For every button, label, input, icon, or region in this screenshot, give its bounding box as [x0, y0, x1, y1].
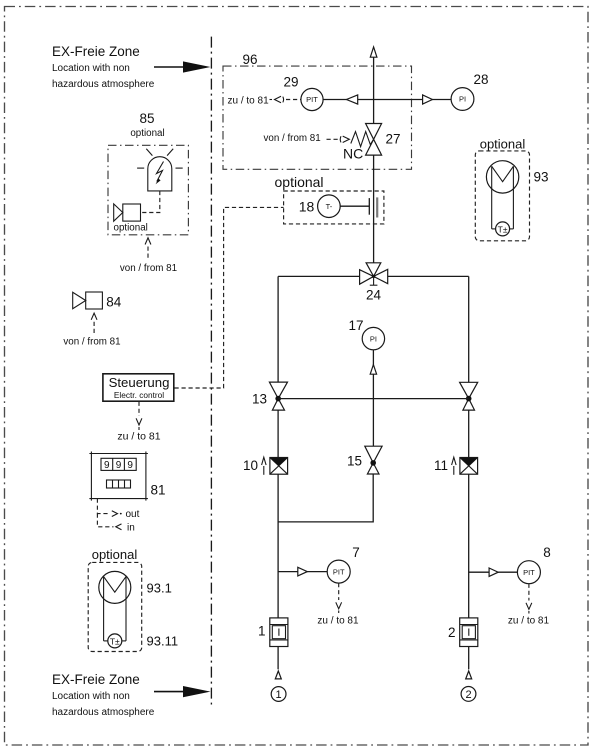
transmitter PIT 8	[469, 545, 551, 584]
label EX-Freie Zone (bottom)	[52, 672, 155, 718]
svg-text:84: 84	[106, 295, 122, 310]
alarm unit 85 label	[130, 111, 164, 139]
zone arrow (bottom)	[154, 686, 211, 697]
beacon lamp	[148, 157, 172, 191]
arrowhead toward PIT29	[347, 95, 358, 104]
svg-text:2: 2	[448, 625, 456, 640]
svg-text:8: 8	[543, 545, 551, 560]
svg-text:PIT: PIT	[523, 568, 535, 577]
gauge PI 17	[348, 318, 384, 350]
svg-text:29: 29	[283, 75, 298, 90]
label EX-Freie Zone (top)	[52, 44, 155, 90]
fan 93.1	[99, 571, 131, 641]
filter 1	[258, 618, 288, 647]
svg-text:PI: PI	[370, 334, 377, 343]
svg-text:zu / to 81: zu / to 81	[317, 616, 359, 627]
transmitter PIT 29	[301, 88, 323, 110]
svg-text:EX-Freie Zone: EX-Freie Zone	[52, 672, 140, 687]
vent outlet arrow	[370, 47, 377, 57]
temperature sensor 93.11	[108, 634, 122, 648]
inlet 1	[271, 647, 286, 702]
svg-text:1: 1	[276, 689, 282, 701]
svg-text:optional: optional	[130, 128, 164, 139]
zone arrow (top)	[154, 61, 211, 72]
controller 81 box	[89, 452, 147, 501]
vent pipe (top main line)	[373, 57, 375, 123]
svg-text:zu / to 81: zu / to 81	[508, 616, 550, 627]
solenoid valve 27	[343, 124, 401, 162]
svg-text:81: 81	[151, 483, 166, 498]
svg-text:2: 2	[465, 689, 471, 701]
pipe below valve 27	[373, 155, 375, 263]
svg-text:18: 18	[299, 199, 315, 215]
valve (right, unlabeled)	[460, 382, 478, 410]
fan unit 93 box	[475, 151, 529, 241]
svg-text:PI: PI	[459, 95, 466, 104]
arrowhead up to PI 17	[370, 365, 376, 375]
svg-text:optional: optional	[92, 547, 138, 562]
signal in wire of 81	[97, 514, 134, 534]
svg-text:9: 9	[104, 460, 110, 471]
svg-text:optional: optional	[480, 137, 526, 152]
transmitter PIT 7	[278, 545, 360, 583]
sense line PIT29 to PI28	[323, 99, 451, 101]
svg-text:Electr. control: Electr. control	[114, 390, 164, 400]
svg-text:28: 28	[473, 72, 488, 87]
svg-text:T±: T±	[498, 224, 508, 234]
svg-text:Location with non: Location with non	[52, 63, 130, 74]
svg-text:von / from 81: von / from 81	[264, 133, 321, 144]
signal arrow into 85	[120, 238, 177, 274]
svg-text:out: out	[126, 509, 140, 520]
horn (in 85)	[114, 204, 148, 234]
solenoid valve 11	[434, 457, 478, 475]
right riser	[468, 276, 470, 382]
valve 15	[347, 446, 382, 474]
alarm unit 85 box	[108, 145, 188, 235]
svg-text:85: 85	[139, 111, 154, 126]
cross header	[278, 398, 469, 400]
enclosure 96	[223, 66, 412, 169]
svg-text:13: 13	[252, 392, 267, 407]
fan 93	[486, 161, 518, 229]
temperature sensor in 93	[496, 222, 510, 236]
svg-text:9: 9	[127, 460, 133, 471]
svg-text:hazardous atmosphere: hazardous atmosphere	[52, 707, 155, 718]
fan unit 93.1 box	[88, 562, 142, 651]
svg-text:optional: optional	[114, 223, 148, 234]
signal out of PIT 7	[317, 583, 359, 626]
filter 2	[448, 618, 478, 647]
svg-text:Location with non: Location with non	[52, 691, 130, 702]
header left of valve 24	[278, 275, 360, 277]
left riser lower	[277, 410, 279, 457]
svg-text:96: 96	[243, 52, 258, 67]
signal out wire of 81	[97, 499, 139, 520]
digit display 999	[101, 458, 136, 471]
svg-text:27: 27	[386, 132, 401, 147]
control unit Steuerung	[103, 374, 174, 401]
gauge PI 28	[451, 72, 488, 110]
svg-text:11: 11	[434, 458, 448, 473]
arrowhead toward PI28	[423, 95, 433, 104]
center sense line	[372, 350, 374, 446]
wire beacon-horn (dashed)	[141, 191, 160, 213]
valve 13	[252, 382, 288, 410]
svg-text:NC: NC	[343, 146, 363, 162]
svg-text:von / from 81: von / from 81	[63, 337, 120, 348]
control wire Steuerung to 18 (dashed)	[175, 207, 284, 388]
svg-text:optional: optional	[275, 174, 324, 190]
svg-text:9: 9	[116, 460, 122, 471]
svg-text:93: 93	[534, 170, 549, 185]
svg-text:von / from 81: von / from 81	[120, 263, 177, 274]
svg-text:zu / to 81: zu / to 81	[117, 431, 160, 443]
zone boundary line	[210, 37, 212, 705]
svg-text:93.1: 93.1	[147, 581, 172, 596]
left riser	[277, 276, 279, 382]
svg-text:15: 15	[347, 454, 362, 469]
svg-text:1: 1	[258, 624, 266, 639]
svg-text:EX-Freie Zone: EX-Freie Zone	[52, 44, 140, 59]
svg-text:PIT: PIT	[333, 567, 345, 576]
line below valve 15	[278, 474, 373, 522]
svg-text:T-: T-	[326, 202, 333, 211]
signal out of PIT 29	[228, 96, 301, 107]
right riser lower	[468, 410, 470, 457]
three-way valve 24	[360, 263, 388, 303]
svg-text:in: in	[127, 523, 135, 534]
header right of valve 24	[388, 275, 469, 277]
left pipe below valve 10	[277, 474, 279, 618]
beacon rays	[137, 149, 183, 168]
svg-text:PIT: PIT	[306, 95, 318, 104]
spring of valve 27	[351, 132, 374, 147]
svg-text:Steuerung: Steuerung	[109, 375, 170, 390]
pilot signal to valve 27	[264, 133, 350, 144]
svg-text:17: 17	[348, 318, 363, 333]
svg-text:93.11: 93.11	[147, 634, 179, 649]
inlet 2	[461, 647, 476, 702]
terminal strip	[107, 480, 131, 488]
signal arrow out of Steuerung	[117, 402, 160, 443]
thermometer 18	[299, 195, 377, 218]
svg-text:24: 24	[366, 288, 382, 303]
horn 84	[73, 292, 122, 310]
svg-text:hazardous atmosphere: hazardous atmosphere	[52, 79, 155, 90]
signal arrow into 84	[63, 313, 120, 347]
thermometer 18 box	[284, 191, 384, 224]
svg-text:T±: T±	[110, 636, 120, 646]
right pipe below valve 11	[468, 474, 470, 618]
solenoid valve 10	[243, 457, 288, 475]
svg-text:10: 10	[243, 458, 258, 473]
svg-text:zu / to 81: zu / to 81	[228, 96, 270, 107]
signal out of PIT 8	[508, 584, 550, 627]
svg-text:7: 7	[352, 545, 360, 560]
